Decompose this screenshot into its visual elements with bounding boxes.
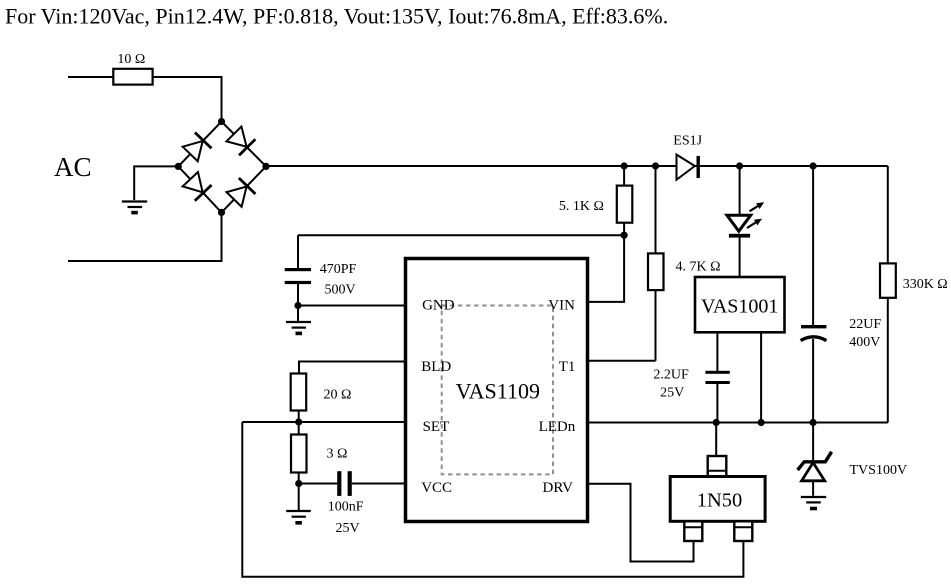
- wire bridge edge top-right: [222, 122, 267, 167]
- svg-text:For Vin:120Vac, Pin12.4W, PF:0: For Vin:120Vac, Pin12.4W, PF:0.818, Vout…: [5, 4, 668, 29]
- node 5.1K bottom junction: [621, 232, 628, 239]
- wire LEDn bus: [588, 422, 888, 424]
- svg-text:25V: 25V: [336, 521, 360, 536]
- wire bridge edge bottom-left: [178, 166, 221, 212]
- svg-text:AC: AC: [54, 152, 92, 182]
- svg-text:100nF: 100nF: [328, 500, 364, 515]
- wire VAS1001 left pin to 2.2UF: [716, 332, 718, 371]
- wire VAS1001 right pin: [760, 332, 762, 422]
- resistor 5.1K chain: wire bus to resistor: [623, 166, 625, 235]
- resistor 5.1K ohm: [559, 186, 632, 223]
- node 4.7K top on bus: [652, 162, 659, 169]
- wire SET pin: [242, 421, 405, 423]
- svg-text:2.2UF: 2.2UF: [653, 368, 689, 383]
- wire T1 pin: [588, 360, 656, 362]
- ground VCC node: [286, 484, 311, 523]
- diode ES1J: [673, 134, 702, 180]
- svg-text:VCC: VCC: [421, 480, 452, 496]
- node LEDn/VAS1001: [758, 419, 765, 426]
- svg-text:VAS1109: VAS1109: [456, 378, 540, 403]
- node LED branch on bus: [736, 162, 743, 169]
- wire 470PF top to 5.1K bottom node: [298, 234, 624, 236]
- wire bridge left to AC ground: [134, 166, 178, 200]
- node 5.1K top on bus: [621, 162, 628, 169]
- wire bridge bottom to AC lower lead: [68, 212, 222, 261]
- svg-text:20 Ω: 20 Ω: [324, 388, 352, 403]
- resistor 4.7K ohm: [648, 253, 721, 290]
- svg-text:VIN: VIN: [548, 298, 575, 314]
- capacitor 2.2UF 25V: [653, 368, 729, 423]
- capacitor 22UF 400V (polarized): [801, 166, 882, 423]
- svg-text:500V: 500V: [325, 283, 356, 298]
- node 22UF branch on bus: [810, 162, 817, 169]
- node LEDn/1N50: [713, 419, 720, 426]
- resistor 330K chain wire: [887, 263, 889, 423]
- ground AC input: [122, 202, 147, 213]
- wire 5.1K node down to VIN: [588, 235, 625, 302]
- wire HV bus right corner down to 330K: [887, 166, 889, 264]
- wire DRV pin routing: [588, 484, 694, 562]
- diode bridge D-topleft: [182, 132, 212, 161]
- node LEDn/22UF/TVS: [810, 419, 817, 426]
- wire 20ohm to SET node: [298, 411, 300, 423]
- wire 3ohm to VCC node: [298, 473, 300, 484]
- wire LED anode: [739, 166, 741, 216]
- svg-text:470PF: 470PF: [320, 262, 357, 277]
- wire VCC node to cap: [299, 483, 338, 485]
- svg-text:SET: SET: [423, 419, 450, 435]
- node VCC: [295, 480, 302, 487]
- capacitor 100nF 25V: [328, 471, 406, 536]
- node bridge bottom: [218, 209, 225, 216]
- svg-text:TVS100V: TVS100V: [850, 463, 908, 478]
- wire LED cathode to VAS1001: [739, 238, 741, 278]
- svg-text:22UF: 22UF: [849, 317, 881, 332]
- svg-text:25V: 25V: [660, 385, 684, 400]
- node bridge right: [262, 163, 269, 170]
- wire BLD pin: [299, 362, 406, 374]
- wire AC top-left lead: [68, 76, 113, 78]
- transistor 1N50 (SOT package): [670, 423, 765, 542]
- svg-text:5. 1K Ω: 5. 1K Ω: [559, 199, 604, 214]
- resistor 330K ohm: [880, 263, 948, 297]
- wire bridge edge top-left: [178, 122, 221, 167]
- resistor 4.7K chain wire: [655, 166, 657, 361]
- svg-text:LEDn: LEDn: [539, 419, 576, 435]
- LED indicator: [727, 202, 764, 237]
- node bridge left: [175, 163, 182, 170]
- node bridge top: [218, 118, 225, 125]
- wire SET-left feedback vertical: [242, 422, 743, 577]
- resistor 20 ohm: [291, 374, 352, 411]
- svg-text:4. 7K Ω: 4. 7K Ω: [676, 260, 721, 275]
- resistor 10 ohm: [113, 52, 152, 85]
- diode bridge D-topright: [226, 126, 256, 156]
- resistor 3 ohm: [291, 422, 347, 473]
- svg-text:3 Ω: 3 Ω: [327, 447, 348, 462]
- svg-text:330K Ω: 330K Ω: [903, 277, 948, 292]
- diode bridge D-bottomleft: [182, 171, 212, 200]
- svg-text:ES1J: ES1J: [673, 134, 702, 149]
- svg-text:10 Ω: 10 Ω: [117, 52, 145, 67]
- node 470PF bottom: [294, 302, 301, 309]
- svg-text:GND: GND: [422, 298, 455, 314]
- diode bridge D-bottomright: [226, 178, 256, 208]
- svg-text:T1: T1: [559, 359, 576, 375]
- svg-text:VAS1001: VAS1001: [701, 296, 778, 318]
- wire 10ohm to bridge top: [153, 77, 222, 122]
- wire HV bus (rectified rail): [266, 165, 888, 167]
- wire bridge edge bottom-right: [222, 166, 267, 212]
- svg-text:1N50: 1N50: [697, 490, 743, 512]
- svg-text:400V: 400V: [849, 335, 880, 350]
- TVS diode TVS100V: [798, 423, 907, 509]
- capacitor 470PF 500V: [285, 235, 357, 305]
- IC VAS1001: [695, 277, 785, 332]
- ground 470PF: [286, 306, 311, 334]
- svg-text:BLD: BLD: [421, 359, 451, 375]
- node SET: [295, 418, 302, 425]
- wire GND pin: [298, 305, 406, 307]
- svg-text:DRV: DRV: [543, 480, 574, 496]
- IC VAS1109: [406, 259, 588, 522]
